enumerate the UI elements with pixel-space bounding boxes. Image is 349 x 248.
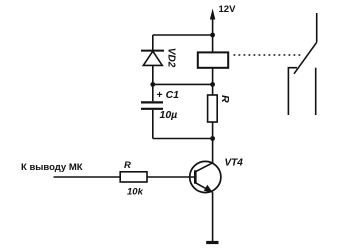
ground — [206, 241, 218, 244]
svg-text:+ C1: + C1 — [157, 89, 180, 101]
svg-text:VD2: VD2 — [165, 48, 176, 68]
dashed linkage to contacts — [234, 54, 303, 56]
wire relay coil to node — [212, 68, 214, 85]
wire bottom horizontal — [153, 138, 213, 140]
wire mid horizontal — [153, 83, 213, 85]
diode VD2 — [141, 35, 164, 84]
relay coil K1 — [198, 52, 228, 67]
wire top horizontal — [153, 34, 213, 36]
wire collector — [212, 139, 214, 164]
junction dot coil/R node — [210, 82, 215, 87]
svg-text:10k: 10k — [127, 186, 144, 197]
junction dot diode/cap node — [150, 82, 155, 87]
power rail 12V arrow — [210, 9, 215, 36]
relay contact blade — [294, 42, 317, 74]
svg-text:R: R — [124, 160, 131, 171]
svg-text:10µ: 10µ — [160, 109, 178, 121]
svg-text:VT4: VT4 — [225, 158, 244, 169]
wire 12V node to relay coil — [212, 35, 214, 52]
transistor VT4 — [190, 161, 221, 192]
wire emitter to ground — [212, 192, 214, 241]
svg-text:К выводу МК: К выводу МК — [21, 162, 83, 173]
relay contact left terminal — [288, 68, 297, 115]
svg-text:12V: 12V — [219, 4, 237, 15]
junction dot collector node — [210, 136, 215, 141]
capacitor C1 — [141, 84, 163, 138]
wire resistor to base — [147, 176, 195, 178]
relay contact top lead — [316, 13, 318, 42]
junction dot top — [210, 33, 215, 38]
resistor R vertical — [208, 84, 218, 138]
svg-text:R: R — [219, 95, 231, 103]
resistor R 10k — [120, 172, 147, 182]
wire input to resistor 10k — [54, 176, 121, 178]
relay contact right terminal — [315, 68, 317, 115]
